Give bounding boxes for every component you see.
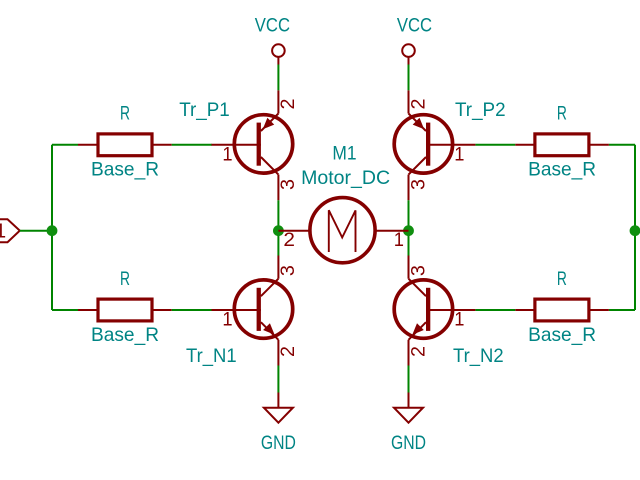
svg-text:1: 1 [394,229,404,251]
svg-text:R: R [557,268,567,290]
svg-text:VCC: VCC [255,15,290,37]
svg-text:3: 3 [277,179,299,190]
svg-text:GND: GND [391,432,426,454]
svg-text:3: 3 [407,265,429,276]
svg-text:2: 2 [277,346,299,357]
svg-text:Motor_DC: Motor_DC [301,167,390,189]
svg-text:Base_R: Base_R [528,324,596,346]
svg-text:Base_R: Base_R [528,158,596,180]
svg-text:M1: M1 [332,143,356,165]
svg-text:Tr_N2: Tr_N2 [453,345,504,367]
svg-text:1: 1 [222,143,232,165]
svg-text:R: R [120,268,130,290]
svg-text:1: 1 [454,143,464,165]
svg-text:2: 2 [407,99,429,110]
svg-text:Base_R: Base_R [91,158,159,180]
svg-text:2: 2 [277,99,299,110]
svg-text:Base_R: Base_R [91,324,159,346]
svg-text:3: 3 [407,179,429,190]
svg-text:Tr_P1: Tr_P1 [179,99,230,121]
svg-text:R: R [120,103,130,125]
svg-text:VCC: VCC [397,15,432,37]
svg-text:2: 2 [283,229,295,251]
svg-text:3: 3 [277,265,299,276]
svg-text:Tr_P2: Tr_P2 [455,99,506,121]
svg-text:1: 1 [454,309,464,331]
svg-text:2: 2 [407,346,429,357]
svg-text:R: R [557,103,567,125]
svg-text:1: 1 [0,221,6,243]
svg-text:1: 1 [222,309,232,331]
svg-text:GND: GND [261,432,296,454]
svg-text:Tr_N1: Tr_N1 [186,345,237,367]
